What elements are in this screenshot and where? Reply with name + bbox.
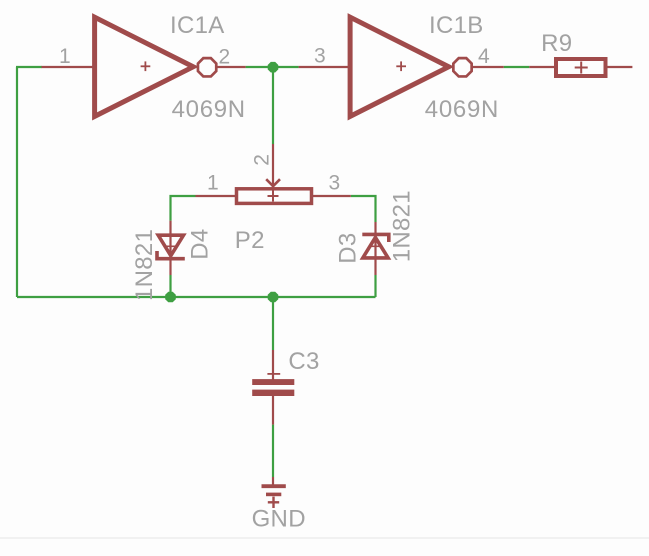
svg-text:3: 3 — [314, 44, 326, 67]
svg-text:D3: D3 — [335, 233, 362, 264]
ground lead — [272, 477, 274, 485]
svg-text:GND: GND — [252, 506, 306, 533]
svg-text:C3: C3 — [288, 348, 319, 375]
svg-text:1: 1 — [207, 172, 219, 195]
IC1B pin 4 lead — [472, 66, 503, 68]
R9 left lead — [529, 66, 554, 68]
diode D4 lead through — [169, 221, 171, 275]
IC1A pin 2 lead — [217, 66, 246, 68]
svg-text:2: 2 — [219, 45, 231, 68]
svg-text:2: 2 — [251, 154, 274, 166]
wire: rail junction down to C3 — [272, 297, 274, 350]
svg-text:D4: D4 — [187, 229, 214, 260]
R9 origin cross — [575, 62, 588, 74]
diode D3 triangle (cathode up) — [363, 237, 388, 258]
wire: bottom rail — [17, 296, 376, 298]
wire: D4 bottom to rail — [169, 275, 171, 297]
wire: net between IC1B output and R9 — [504, 66, 530, 68]
svg-text:4: 4 — [478, 45, 490, 68]
P2 wiper arrow — [266, 179, 280, 186]
wire: junction down to pot wiper — [272, 67, 274, 144]
D3 origin cross tick — [370, 245, 380, 247]
IC1A output bubble — [198, 58, 216, 76]
wire: pot pin1 corner — [171, 196, 196, 221]
IC1B pin 3 lead — [299, 66, 350, 68]
D4 origin cross tick — [166, 245, 176, 247]
wire: C3 bottom to GND — [272, 425, 274, 477]
C3 bottom lead — [272, 396, 274, 425]
junction dot rail mid (C3) — [268, 292, 279, 303]
D3 zener cathode bar — [362, 234, 389, 242]
C3 top plate — [252, 379, 294, 385]
svg-text:P2: P2 — [235, 227, 265, 254]
P2 origin cross — [268, 191, 279, 202]
ground origin cross — [268, 497, 279, 508]
P2 pin3 lead — [313, 195, 351, 197]
svg-text:R9: R9 — [541, 30, 572, 57]
IC1A origin cross — [141, 61, 151, 71]
IC1A pin 1 lead — [42, 66, 95, 68]
svg-text:1N821: 1N821 — [131, 229, 158, 301]
R9 right lead — [608, 66, 633, 68]
svg-text:1N821: 1N821 — [389, 190, 416, 262]
IC1B output bubble — [453, 58, 471, 76]
potentiometer P2 body — [237, 189, 312, 204]
op-amp IC1B inverter triangle — [350, 17, 449, 116]
P2 pin1 lead — [196, 195, 236, 197]
ground bar 2 — [266, 493, 281, 497]
ground bar 1 — [262, 484, 286, 488]
wire: top-left horizontal green to IC1A input — [16, 66, 42, 68]
svg-text:4069N: 4069N — [425, 96, 499, 123]
junction dot at IC1A output net — [268, 62, 279, 73]
svg-text:3: 3 — [329, 172, 341, 195]
wire: D3 bottom to rail — [374, 275, 376, 297]
P2 wiper lead — [272, 144, 274, 187]
capacitor C3 top lead — [272, 350, 274, 380]
wire: net between IC1A output and IC1B input — [246, 66, 299, 68]
svg-text:4069N: 4069N — [172, 96, 246, 123]
resistor R9 body — [556, 59, 606, 76]
wire: feedback left vertical — [16, 67, 18, 297]
diode D3 lead through — [374, 222, 376, 275]
IC1B origin cross — [396, 61, 406, 71]
op-amp IC1A inverter triangle — [95, 17, 194, 116]
svg-text:1: 1 — [59, 45, 71, 68]
C3 origin cross tick — [267, 373, 280, 375]
junction dot rail left (D4) — [165, 292, 176, 303]
svg-text:IC1A: IC1A — [170, 12, 225, 39]
wire: pot pin3 corner — [351, 196, 376, 222]
C3 bottom plate — [252, 390, 294, 396]
bottom frame line — [0, 537, 649, 539]
diode D4 triangle (cathode down) — [158, 235, 183, 256]
svg-text:IC1B: IC1B — [429, 12, 484, 39]
D4 zener cathode bar — [157, 251, 185, 259]
